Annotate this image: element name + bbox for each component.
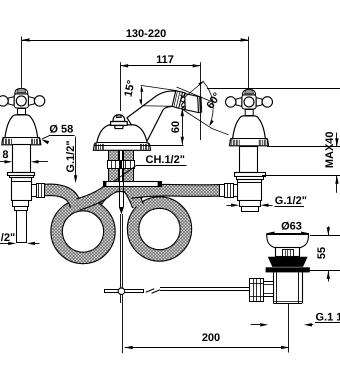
svg-text:60: 60 — [170, 121, 182, 133]
svg-text:G.1/2": G.1/2" — [275, 195, 307, 207]
svg-text:/2": /2" — [1, 232, 15, 244]
svg-text:Ø63: Ø63 — [281, 221, 302, 233]
svg-text:117: 117 — [156, 54, 174, 66]
svg-text:G.1 1/: G.1 1/ — [316, 312, 340, 324]
svg-text:G.1/2": G.1/2" — [65, 140, 77, 172]
svg-text:200: 200 — [202, 332, 220, 344]
svg-text:130-220: 130-220 — [126, 28, 166, 40]
svg-text:55: 55 — [316, 247, 328, 259]
svg-text:8: 8 — [2, 149, 8, 161]
svg-text:Ø 58: Ø 58 — [49, 124, 73, 136]
svg-text:CH.1/2": CH.1/2" — [146, 154, 185, 166]
svg-text:MAX40: MAX40 — [324, 131, 336, 168]
